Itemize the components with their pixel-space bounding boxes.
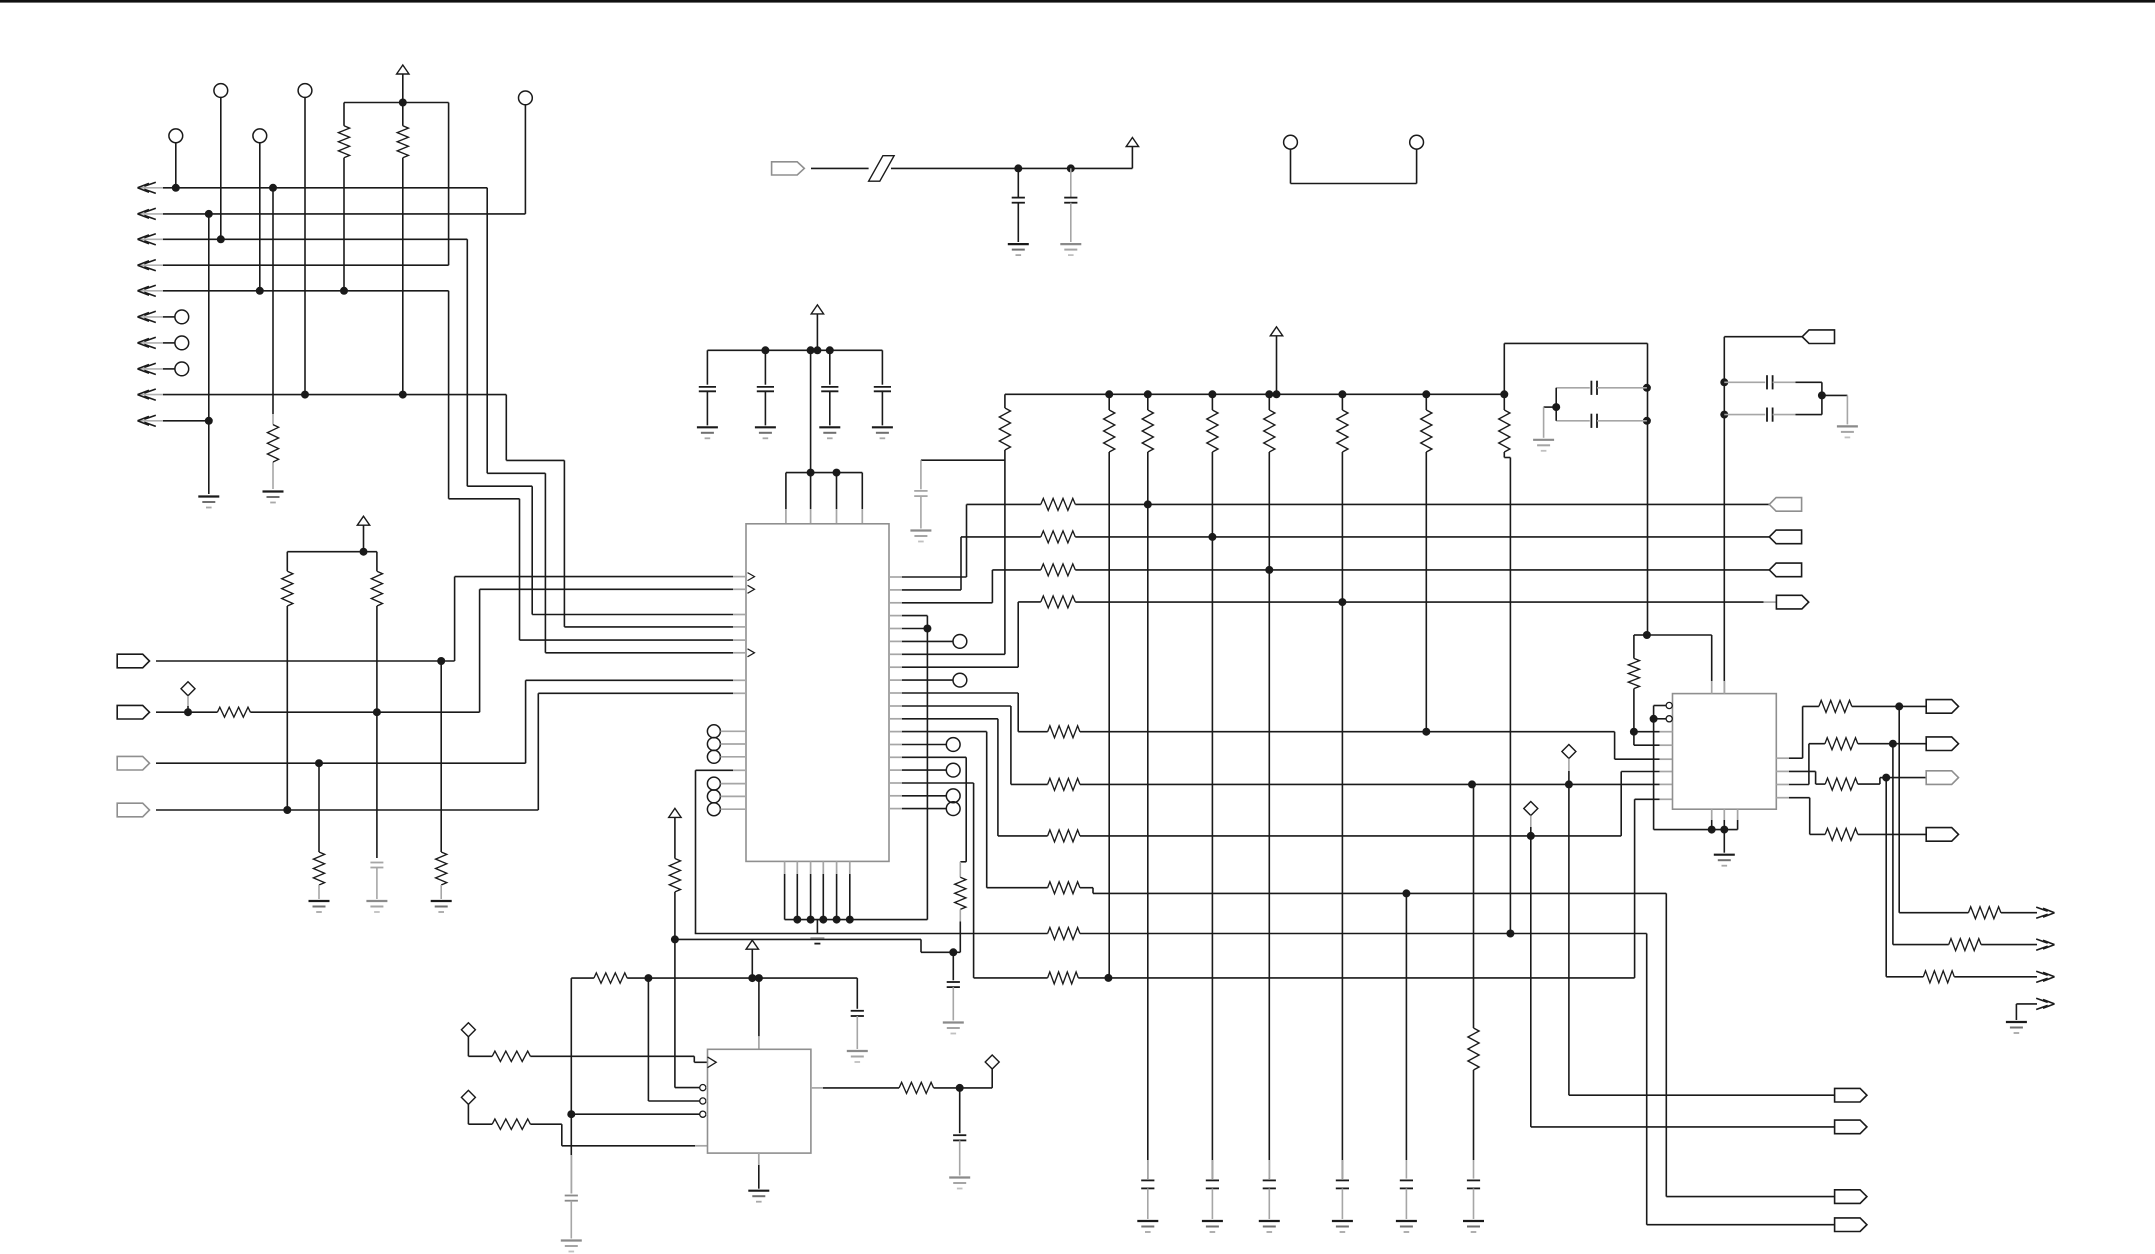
wire net A2 <box>163 105 525 214</box>
bubble U3 1 <box>700 1085 708 1091</box>
node A5 dots <box>256 287 348 295</box>
bus arrow A5 <box>138 285 164 296</box>
capacitor CB1269 lead <box>1268 1160 1270 1179</box>
connector tag P11 <box>1802 330 1834 344</box>
capacitor C12 lead2 <box>1773 381 1822 383</box>
resistor R20 <box>1468 1028 1479 1070</box>
resistor R29 <box>1048 928 1080 940</box>
ic U1 <box>746 524 889 862</box>
ground G14 <box>1533 440 1554 451</box>
wire column x273 <box>272 188 274 489</box>
bubble U2 L2 <box>1666 716 1672 722</box>
capacitor C7 <box>1064 198 1077 203</box>
terminal circle T10 <box>1410 135 1424 149</box>
wire CB1269 lead2 <box>1268 1188 1270 1219</box>
resistor R33 <box>492 1119 530 1129</box>
connector tag P2 <box>117 705 149 719</box>
resistor RC5 <box>1337 410 1348 452</box>
resistor R21 <box>1628 658 1639 688</box>
node P3 dot <box>315 759 323 767</box>
wire bubble2 net <box>648 978 699 1101</box>
pin stubs U2 bottom <box>1712 809 1738 820</box>
pin stubs U1 bottom <box>785 861 850 874</box>
resistor R14 <box>1048 726 1080 738</box>
power symbol VCC7 <box>746 940 758 978</box>
terminal circle T2 <box>298 84 312 98</box>
wire U1 pin17L <box>696 769 747 771</box>
wire out3 <box>1886 778 1923 977</box>
node row2 dot <box>1208 533 1216 541</box>
wire x695 down <box>695 770 697 933</box>
pin chevrons U1 left <box>748 573 755 657</box>
ground G20 <box>748 1191 769 1202</box>
wire out3 arrow <box>1954 976 2037 978</box>
resistor RC5 lead <box>1341 394 1343 410</box>
wire R22 tag <box>1899 705 1932 707</box>
wire net P2 <box>250 589 733 712</box>
resistor RC2 <box>1142 410 1153 452</box>
terminal circle T7 <box>175 336 189 350</box>
capacitor C6 <box>1012 198 1025 203</box>
bus arrow A10 <box>138 415 164 426</box>
wire net A7 <box>163 342 175 344</box>
wire U3 vcc line <box>627 977 857 979</box>
resistor R8 <box>436 852 447 885</box>
node row1 dot <box>1144 500 1152 508</box>
ground G12 <box>910 531 931 542</box>
wire U3 bottom <box>758 1153 760 1189</box>
wire U2 R2 <box>1789 771 1825 784</box>
resistor R9 <box>1041 498 1076 510</box>
connector tag P18 <box>1835 1218 1867 1232</box>
wire C14 lead <box>856 1016 858 1049</box>
ground tap GB <box>810 920 824 944</box>
pin stubs U2 top <box>1712 681 1725 694</box>
wire row6 <box>1080 783 1673 785</box>
capacitor C10 lead <box>1556 387 1590 389</box>
wire row3 <box>1075 569 1769 571</box>
capacitor C3 lead2 <box>764 391 766 425</box>
wire net A9 <box>163 395 733 627</box>
resistor R15 <box>1048 778 1080 790</box>
wire caps2 join <box>1821 382 1823 414</box>
wire U2 L4 <box>1634 732 1673 746</box>
node cap9 dot <box>949 948 957 956</box>
connector tag P9 <box>1776 595 1808 609</box>
capacitor C15 <box>565 1196 578 1201</box>
bubble U2 L1 <box>1666 702 1672 708</box>
arrow out1 <box>2036 907 2054 918</box>
wire U1 top pins <box>786 473 862 509</box>
ground GB1406 <box>1396 1221 1417 1232</box>
power symbol VCC1 <box>397 65 409 103</box>
ic U3 <box>708 1049 811 1153</box>
ground G21 <box>949 1178 970 1189</box>
wire T3 down <box>175 143 177 188</box>
wire p4 net <box>902 616 927 920</box>
ground G4 <box>309 901 330 912</box>
connector tag P1 <box>117 654 149 668</box>
capacitor C5 <box>874 387 891 391</box>
wire bubble1 net <box>675 1087 700 1089</box>
diamond D6 <box>985 1055 999 1069</box>
capacitor C4 lead2 <box>829 391 831 425</box>
wire cap15 lead <box>570 1114 572 1193</box>
resistor R31 <box>594 973 627 983</box>
wire row10 to U2 <box>1635 799 1673 978</box>
wire R24 tag <box>1893 743 1933 745</box>
wire row1 <box>1075 503 1769 505</box>
ground G9 <box>872 427 893 438</box>
ground G16 <box>1714 855 1735 866</box>
wire D2 stem <box>1568 759 1570 785</box>
wire row8 <box>1080 888 1666 894</box>
ground G17 <box>2006 1022 2027 1033</box>
wire U1 bottom pins <box>785 874 850 920</box>
node A9 dots <box>301 391 407 399</box>
node U2 T1 dot <box>1643 631 1651 639</box>
wire cap14 branch <box>856 978 858 1009</box>
wire R23 out <box>1858 778 1886 785</box>
resistor R3 <box>267 425 278 462</box>
wire U2 bottom bus <box>1654 820 1738 830</box>
resistor RC3 <box>1207 410 1218 452</box>
connector tag P3 <box>117 756 149 770</box>
wire CB1342 lead2 <box>1341 1188 1343 1219</box>
arrow out4 <box>2036 998 2054 1009</box>
clock chevron U3 <box>708 1057 717 1068</box>
connector tag P6 <box>1769 498 1801 512</box>
wire out4 <box>2016 1004 2037 1020</box>
capacitor C10 lead2 <box>1597 387 1647 389</box>
wire VCC5 down2 <box>674 939 676 1087</box>
resistor R11 <box>1041 564 1076 576</box>
wire net P5a <box>811 167 869 169</box>
connector tag P12 <box>1926 700 1958 714</box>
capacitor C12 <box>1767 375 1773 389</box>
capacitor C14 <box>851 1011 864 1016</box>
wire L2 down <box>1653 719 1655 830</box>
resistor R22 <box>1819 700 1852 712</box>
connector tag P16 <box>1835 1088 1867 1102</box>
nc circle U1 r4 <box>902 763 960 777</box>
connector tag P13 <box>1926 771 1958 785</box>
wire D4 stem <box>468 1037 492 1057</box>
capacitor C6 lead2 <box>1017 203 1019 242</box>
wire D5 net <box>530 1124 707 1146</box>
capacitor C13 lead2 <box>1773 414 1822 416</box>
power symbol VCC6 <box>1270 327 1282 395</box>
nc circle U1 left 5 <box>707 790 746 803</box>
capacitor C9 lead <box>952 952 954 980</box>
resistor RC2 lead <box>1147 394 1149 410</box>
node A2 dot <box>205 210 213 218</box>
capacitor C11 lead <box>1556 420 1590 422</box>
wire R2 bottom to row9 <box>402 158 404 395</box>
ferrite bead FB1 <box>869 156 895 182</box>
capacitor C3 lead <box>764 350 766 384</box>
wire out1 arrow <box>2001 912 2037 914</box>
wire C1 lead <box>376 868 378 900</box>
ground GB1148 <box>1137 1221 1158 1232</box>
capacitor C13 <box>1767 408 1773 422</box>
resistor R30 <box>669 859 680 892</box>
wire U2 R4 <box>1789 798 1825 835</box>
resistor R28 <box>1923 971 1954 983</box>
resistor R13 <box>1041 596 1076 608</box>
diamond D2 <box>1562 745 1576 759</box>
wire row10 <box>1078 977 1634 979</box>
wire col4 <box>1268 452 1270 1179</box>
wire VCC2 rail <box>287 552 377 572</box>
wire net P1 <box>156 577 733 661</box>
wire C15 lead2 <box>570 1201 572 1239</box>
bubble U3 3 <box>700 1111 708 1117</box>
capacitor CB1474 lead <box>1473 1160 1475 1179</box>
capacitor C12 lead <box>1724 381 1765 383</box>
wire x441 down <box>440 661 442 852</box>
wire p11 net <box>902 706 1048 784</box>
wire row9 <box>695 933 1048 935</box>
wire p15 net <box>902 757 966 877</box>
node row9 dot <box>1506 930 1514 938</box>
wire net P2 lead <box>156 711 217 713</box>
capacitor CB1148 <box>1141 1180 1154 1188</box>
resistor RC1 <box>1104 410 1115 452</box>
wire row7 <box>1080 835 1621 837</box>
wire D5 stem <box>468 1104 492 1124</box>
connector tag P4 <box>117 803 149 817</box>
wire p7 net <box>902 394 1005 654</box>
node A10 dot <box>205 417 213 425</box>
wire net A6 <box>163 316 175 318</box>
capacitor C5 lead <box>881 350 883 384</box>
wire R5 bottom <box>376 606 378 712</box>
wire U3 out b <box>823 1087 899 1089</box>
wire cap branch <box>921 460 1005 489</box>
wire R7 lead <box>318 885 320 899</box>
wire U3 top pin <box>758 978 760 1049</box>
ic U2 <box>1673 694 1777 810</box>
capacitor C16 <box>953 1135 966 1140</box>
pin stubs U1 top <box>786 509 862 524</box>
capacitor C13 lead <box>1724 414 1765 416</box>
bus arrow A4 <box>138 260 164 271</box>
ground GB1342 <box>1332 1221 1353 1232</box>
capacitor CB1269 <box>1263 1180 1276 1188</box>
wire col7 <box>1504 452 1510 934</box>
resistor RC3 lead <box>1211 394 1213 410</box>
wire R31 left <box>571 978 594 1114</box>
pin stubs U1 left <box>733 577 746 694</box>
diamond D1 <box>181 682 195 696</box>
capacitor C11 <box>1591 414 1597 428</box>
node R24 dot <box>1889 740 1897 748</box>
wire net A8 <box>163 368 175 370</box>
node VCC3 dots <box>761 346 833 354</box>
wire row4 <box>1075 601 1776 603</box>
node row7 dot <box>1527 832 1535 840</box>
wire row7 to U2 <box>1621 772 1672 836</box>
wire R18 lead <box>959 909 961 952</box>
wire net A5 <box>163 291 733 640</box>
node row8 dot <box>1402 889 1410 897</box>
node gnd bus dots <box>793 916 854 924</box>
wire U2 gnd lead <box>1723 830 1725 853</box>
resistor R34 <box>899 1082 934 1093</box>
wire U2 L3 <box>1634 731 1673 733</box>
nc circle U1 r5 <box>902 789 960 803</box>
resistor R10 <box>1041 531 1076 543</box>
wire row5 <box>1080 731 1615 733</box>
wire x319 down <box>318 763 320 852</box>
resistor R25 <box>1825 828 1858 840</box>
wire caps gnd branch <box>1544 407 1557 438</box>
wire C8 lead <box>920 496 922 528</box>
capacitor C2 <box>699 387 716 391</box>
wire p8 net <box>902 602 1041 667</box>
wire U3 out <box>811 1087 823 1089</box>
node VCC1 junction <box>399 99 407 107</box>
wire U1 top bus <box>786 472 862 474</box>
capacitor C6 lead <box>1017 168 1019 197</box>
terminal circle T4 <box>253 129 267 143</box>
wire U2 R3 <box>1789 744 1825 785</box>
wire VCC3 to U1 <box>810 350 812 472</box>
node bubble3 dot <box>567 1110 575 1118</box>
wire U2 T1 <box>1647 635 1712 681</box>
node P2 dot2 <box>373 708 381 716</box>
node P5 dots <box>1014 164 1075 172</box>
capacitor CB1474 <box>1467 1180 1480 1188</box>
node P1 dot <box>437 657 445 665</box>
connector tag P14 <box>1926 737 1958 751</box>
resistor R6 <box>217 707 250 717</box>
ground G15 <box>1837 426 1858 437</box>
capacitor C10 <box>1591 381 1597 395</box>
ground G11 <box>1060 244 1081 255</box>
capacitor CB1406 <box>1400 1180 1413 1188</box>
wire R23 tag <box>1886 777 1932 779</box>
resistor R5 <box>371 571 382 606</box>
terminal circle T1 <box>214 84 228 98</box>
ground G18 <box>847 1051 868 1062</box>
wire U1 gnd bus <box>785 919 928 921</box>
node U1 top dots <box>807 469 841 477</box>
capacitor CB1212 lead <box>1211 1160 1213 1179</box>
wire net A10 <box>163 420 209 422</box>
ground GB1474 <box>1463 1221 1484 1232</box>
ground G19 <box>561 1241 582 1252</box>
wire VCC1 rail <box>344 103 449 266</box>
capacitor C4 <box>821 387 838 391</box>
wire caps left join <box>1555 388 1557 421</box>
wire caps2 gnd <box>1822 395 1848 424</box>
nc circle U1 left 4 <box>707 777 746 790</box>
wire column x209 <box>208 214 210 494</box>
bus arrow A7 <box>138 337 164 348</box>
wire net A3 <box>163 239 733 614</box>
arrow out3 <box>2036 971 2054 982</box>
wire net P4 <box>156 693 733 810</box>
node R22 dot <box>1895 702 1903 710</box>
nc circle U1 left 2 <box>707 738 746 751</box>
resistor RC4 <box>1264 410 1275 452</box>
connector tag P5 <box>772 162 805 175</box>
node U2 bottom dots <box>1708 826 1729 834</box>
power symbol VCC4 <box>1126 138 1138 147</box>
resistor RC1 lead <box>1108 394 1110 410</box>
wire R24 out <box>1858 743 1893 745</box>
resistor R19 <box>1048 972 1079 984</box>
ground G8 <box>819 427 840 438</box>
resistor RC7 lead <box>1503 394 1505 410</box>
wire U2 R1 <box>1789 706 1819 758</box>
resistor R2 <box>397 126 408 158</box>
bus arrow A3 <box>138 234 164 245</box>
wire col2 <box>1147 452 1149 1179</box>
capacitor C7 lead <box>1070 168 1072 197</box>
node A1 dots <box>172 184 277 192</box>
terminal circle T9 <box>1284 135 1298 149</box>
nc circle U1 r2 <box>902 673 967 687</box>
resistor R17 <box>1048 882 1080 894</box>
wire p5 net <box>902 628 927 630</box>
arrow out2 <box>2036 939 2054 950</box>
resistor R32 <box>492 1051 530 1061</box>
node L2 dot <box>1650 715 1658 723</box>
wire col9 <box>1473 784 1475 1028</box>
wire col3 <box>1211 452 1213 1179</box>
terminal circle T5 <box>519 91 533 105</box>
terminal circle T3 <box>169 129 183 143</box>
nc circle U1 left 1 <box>707 725 746 738</box>
node caps dots1 <box>1643 384 1651 425</box>
power symbol VCC2 <box>357 516 369 552</box>
ground G10 <box>1008 244 1029 255</box>
wire VCC5 down <box>674 892 676 940</box>
wire p2 net <box>902 537 1041 590</box>
wire C16 lead2 <box>959 1140 961 1175</box>
bus arrow A1 <box>138 182 164 193</box>
capacitor C5 lead2 <box>881 391 883 425</box>
nc circle U1 left 3 <box>707 750 746 763</box>
node p5 dot <box>923 625 931 633</box>
terminal circle T6 <box>175 310 189 324</box>
resistor R18 <box>955 877 966 909</box>
resistor R23 <box>1825 778 1858 790</box>
node P4 dot <box>283 806 291 814</box>
wire R20 lead <box>1473 1070 1475 1160</box>
pin stubs U2 right <box>1776 758 1789 798</box>
node vcc7 dots <box>748 974 763 982</box>
node A3 dot <box>217 235 225 243</box>
wire T9-T10 jumper <box>1291 149 1417 183</box>
wire R34 out <box>934 1087 960 1089</box>
node row6 dots <box>1468 780 1573 788</box>
wire T2 down <box>304 97 306 394</box>
wire R21 top <box>1634 635 1647 658</box>
connector tag P10 <box>1835 1190 1867 1204</box>
node row10 dot <box>1104 974 1112 982</box>
node U2cap dots <box>1720 378 1728 418</box>
connector tag P15 <box>1926 828 1958 842</box>
wire cap16 lead <box>959 1088 961 1133</box>
resistor R7 <box>313 852 324 885</box>
node R23 dot <box>1882 774 1890 782</box>
node top bus dots <box>1105 390 1508 398</box>
wire row9b <box>1080 933 1647 935</box>
